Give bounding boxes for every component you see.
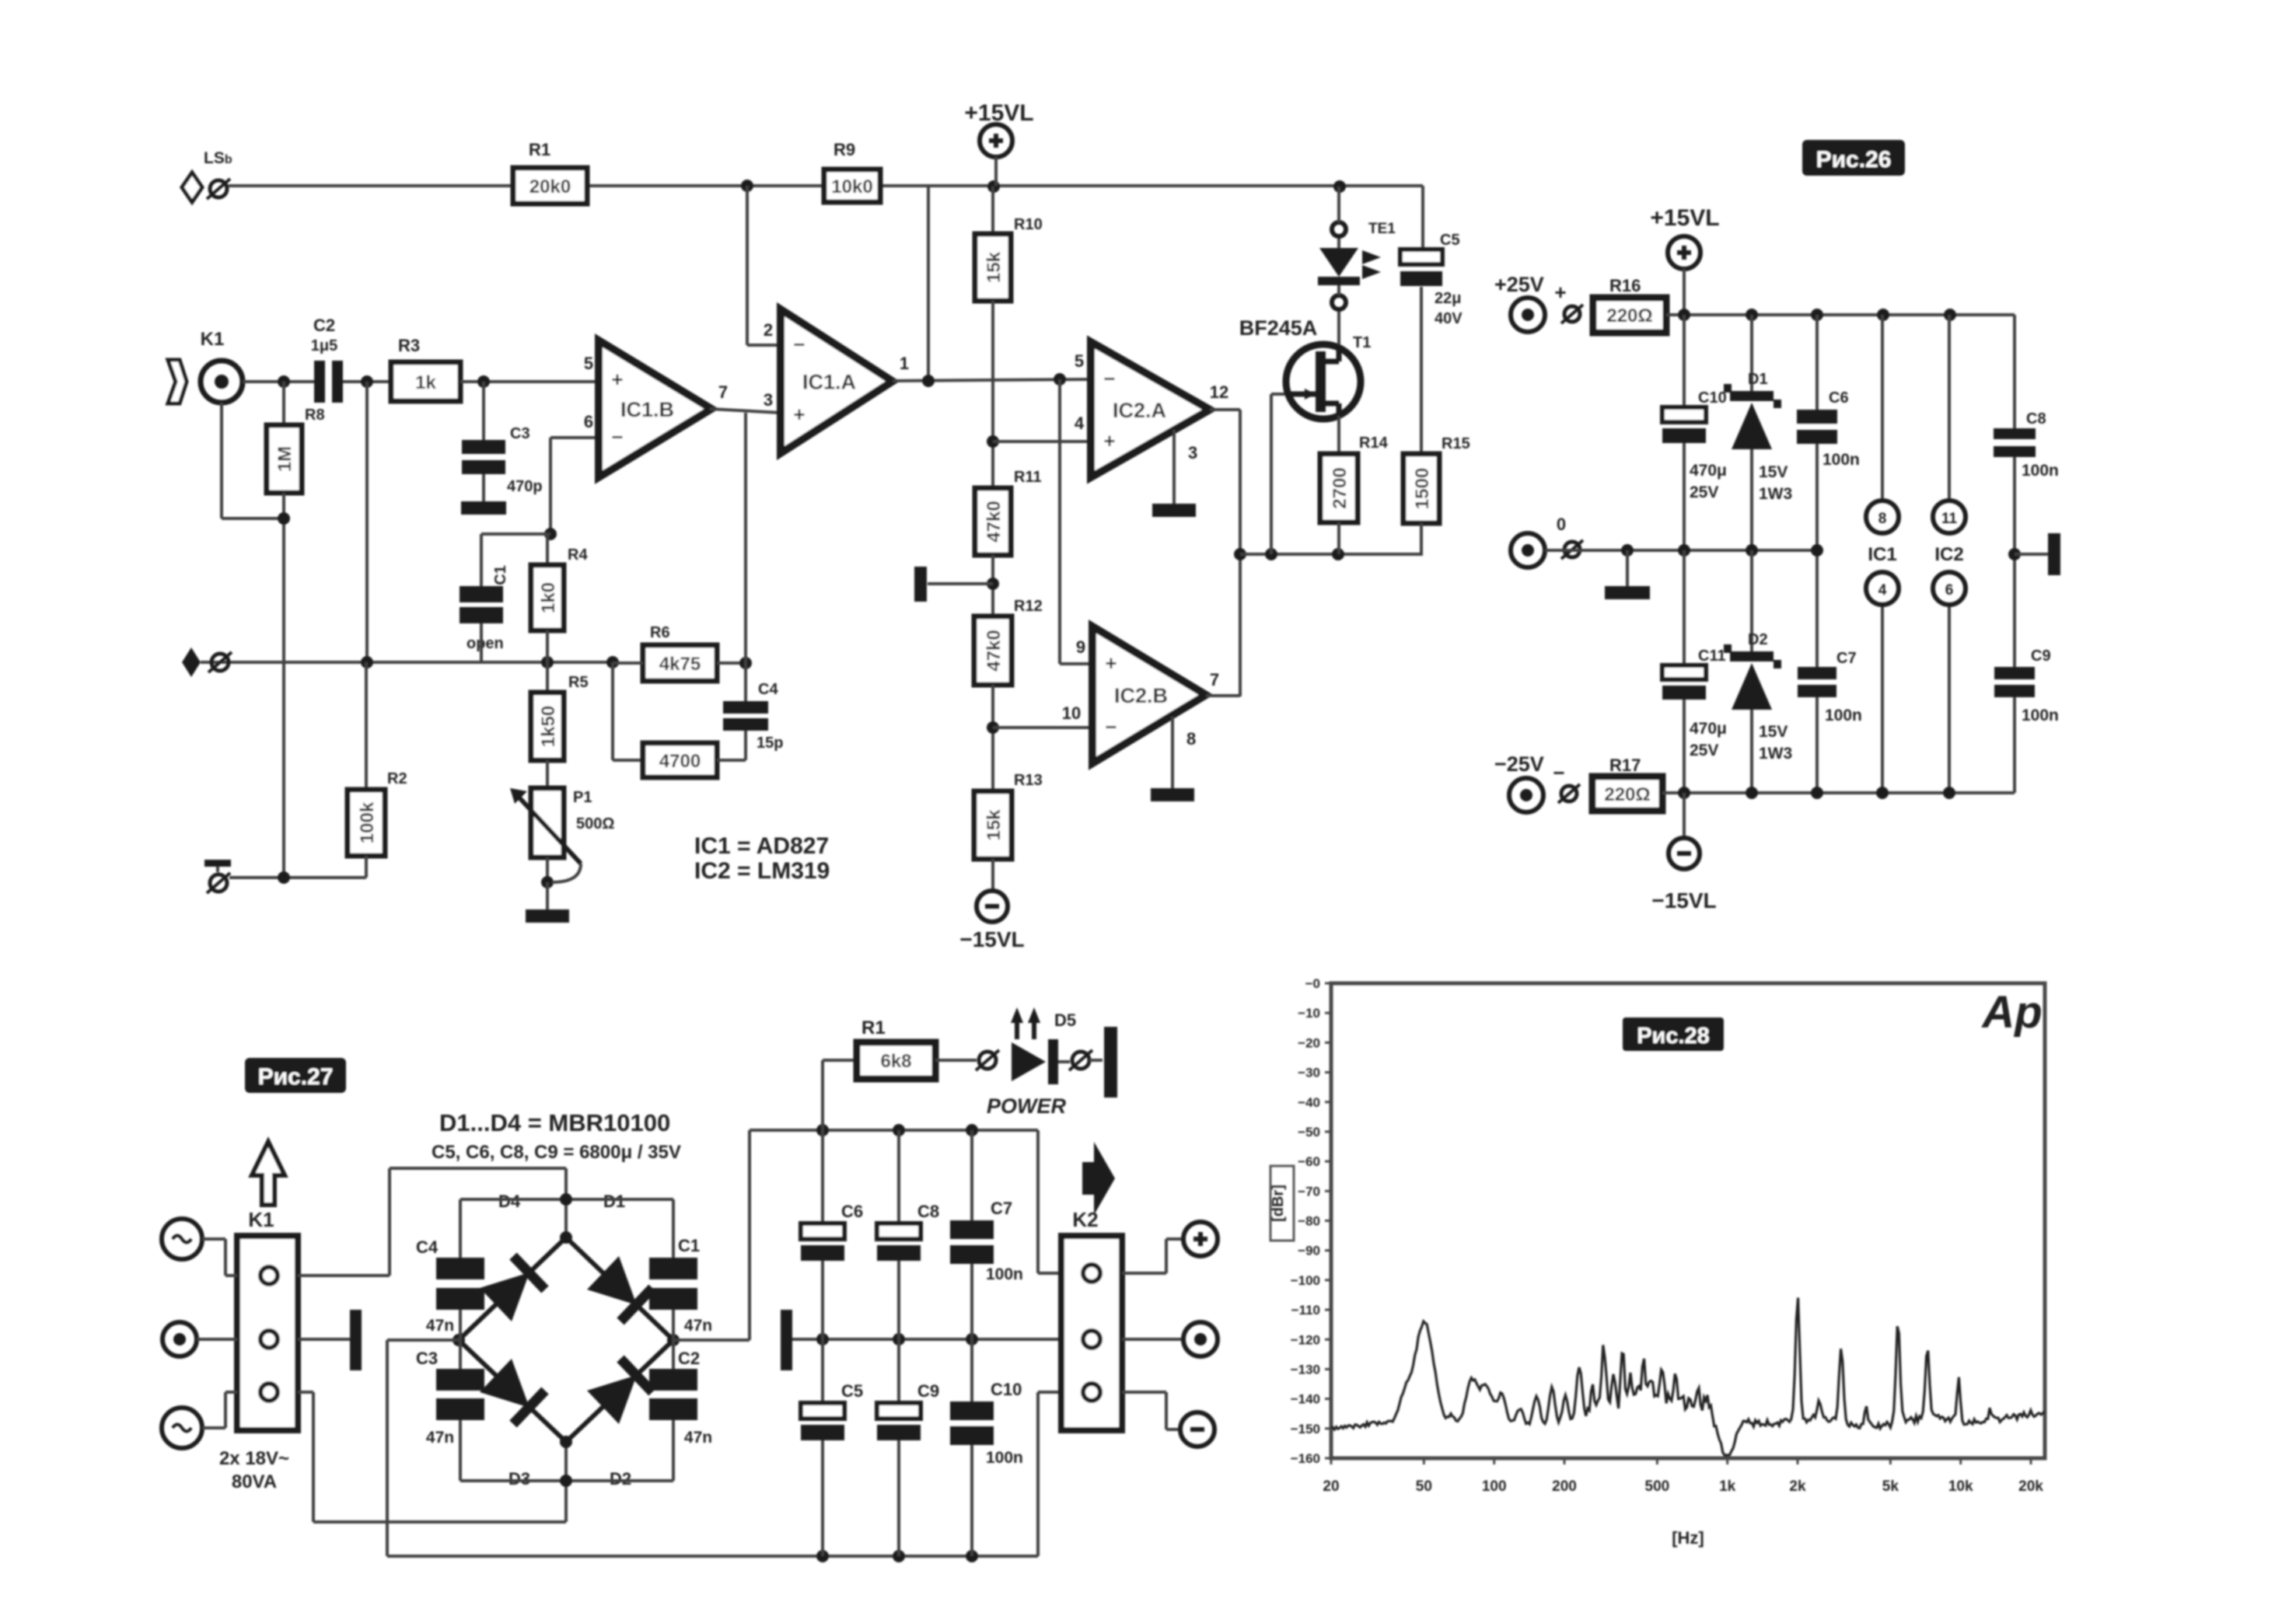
svg-text:R12: R12	[1014, 598, 1043, 615]
svg-text:2x 18V~: 2x 18V~	[219, 1448, 289, 1469]
svg-text:6k8: 6k8	[880, 1051, 911, 1072]
svg-text:−: −	[793, 333, 805, 356]
svg-text:D3: D3	[508, 1469, 530, 1489]
svg-text:R8: R8	[305, 407, 325, 424]
svg-text:K1: K1	[248, 1208, 274, 1231]
svg-text:R11: R11	[1014, 469, 1042, 486]
svg-text:2: 2	[764, 320, 773, 340]
svg-text:1μ5: 1μ5	[311, 337, 337, 354]
svg-text:20k0: 20k0	[529, 176, 571, 197]
svg-text:100n: 100n	[2022, 707, 2059, 724]
svg-text:Рис.27: Рис.27	[258, 1064, 334, 1090]
svg-text:5k: 5k	[1882, 1478, 1899, 1495]
svg-text:500: 500	[1645, 1478, 1670, 1495]
svg-text:C5, C6, C8, C9 = 6800μ / 35V: C5, C6, C8, C9 = 6800μ / 35V	[432, 1142, 681, 1163]
svg-text:−40: −40	[1298, 1095, 1320, 1110]
svg-text:POWER: POWER	[987, 1094, 1067, 1118]
svg-text:1k: 1k	[415, 372, 436, 393]
svg-text:12: 12	[1210, 382, 1228, 402]
svg-text:47k0: 47k0	[984, 501, 1005, 542]
svg-text:BF245A: BF245A	[1239, 316, 1318, 340]
svg-text:40V: 40V	[1435, 310, 1463, 327]
svg-text:+25V: +25V	[1494, 273, 1544, 296]
svg-text:10k0: 10k0	[831, 176, 872, 197]
svg-text:100n: 100n	[2022, 462, 2059, 480]
svg-text:C5: C5	[1440, 232, 1460, 249]
svg-text:T1: T1	[1353, 334, 1371, 351]
svg-text:D5: D5	[1054, 1010, 1076, 1030]
svg-text:−60: −60	[1298, 1154, 1320, 1169]
svg-text:1k0: 1k0	[538, 582, 559, 613]
svg-text:D1: D1	[603, 1192, 625, 1211]
svg-text:D2: D2	[610, 1469, 631, 1489]
svg-text:47n: 47n	[684, 1317, 712, 1335]
svg-text:−10: −10	[1298, 1006, 1320, 1021]
svg-text:−: −	[1103, 367, 1115, 390]
svg-text:−160: −160	[1291, 1451, 1320, 1466]
svg-text:R3: R3	[398, 336, 420, 355]
svg-text:R14: R14	[1359, 435, 1389, 452]
svg-text:1k: 1k	[1719, 1478, 1736, 1495]
svg-text:2700: 2700	[1330, 467, 1351, 508]
svg-text:220Ω: 220Ω	[1604, 784, 1650, 805]
svg-text:R13: R13	[1014, 772, 1043, 789]
svg-text:−20: −20	[1298, 1035, 1320, 1050]
svg-text:IC1: IC1	[1868, 544, 1896, 565]
svg-text:−25V: −25V	[1494, 752, 1544, 776]
svg-text:C4: C4	[758, 681, 778, 698]
svg-text:10: 10	[1062, 703, 1081, 723]
svg-text:Ap: Ap	[1980, 987, 2042, 1038]
svg-text:−50: −50	[1298, 1125, 1320, 1140]
svg-text:C6: C6	[841, 1202, 863, 1221]
svg-text:R15: R15	[1442, 435, 1470, 452]
svg-text:8: 8	[1878, 511, 1887, 527]
svg-text:C4: C4	[416, 1237, 439, 1257]
svg-text:100n: 100n	[986, 1265, 1023, 1283]
svg-text:C8: C8	[2026, 410, 2046, 428]
svg-text:IC1 = AD827: IC1 = AD827	[694, 833, 829, 859]
svg-text:C7: C7	[1836, 650, 1857, 667]
svg-text:100: 100	[1482, 1478, 1507, 1495]
svg-text:100n: 100n	[986, 1449, 1023, 1467]
svg-text:47n: 47n	[426, 1429, 454, 1447]
svg-text:C2: C2	[678, 1349, 700, 1368]
svg-text:C10: C10	[991, 1380, 1022, 1399]
svg-text:4: 4	[1878, 582, 1887, 599]
svg-text:−: −	[611, 425, 623, 449]
svg-text:IC1.B: IC1.B	[620, 398, 674, 421]
svg-text:C9: C9	[917, 1381, 939, 1401]
svg-text:R1: R1	[861, 1017, 886, 1038]
svg-text:4: 4	[1075, 414, 1085, 433]
svg-text:R16: R16	[1609, 276, 1641, 295]
svg-text:6: 6	[584, 412, 593, 431]
svg-text:1: 1	[900, 354, 909, 373]
svg-text:10k: 10k	[1948, 1478, 1973, 1495]
svg-text:IC1.A: IC1.A	[802, 371, 856, 394]
svg-text:−130: −130	[1291, 1362, 1320, 1377]
svg-text:9: 9	[1076, 637, 1085, 657]
svg-text:−90: −90	[1298, 1244, 1320, 1258]
svg-text:2k: 2k	[1789, 1478, 1806, 1495]
svg-text:[dBr]: [dBr]	[1270, 1185, 1287, 1222]
svg-text:C1: C1	[678, 1236, 700, 1255]
svg-text:470μ: 470μ	[1690, 462, 1727, 480]
svg-text:+: +	[611, 368, 623, 391]
svg-text:R2: R2	[387, 770, 407, 787]
svg-text:−0: −0	[1305, 976, 1320, 991]
svg-text:1M: 1M	[274, 446, 295, 472]
svg-text:0: 0	[1557, 515, 1566, 534]
svg-text:open: open	[467, 635, 504, 652]
svg-text:+: +	[1103, 429, 1115, 452]
svg-text:47k0: 47k0	[984, 630, 1005, 671]
svg-text:C1: C1	[492, 565, 509, 585]
svg-text:C5: C5	[841, 1381, 863, 1401]
svg-text:4k75: 4k75	[659, 654, 701, 675]
svg-text:−80: −80	[1298, 1214, 1320, 1229]
svg-text:R9: R9	[833, 140, 855, 159]
svg-text:−70: −70	[1298, 1184, 1320, 1199]
svg-text:15k: 15k	[984, 809, 1005, 841]
svg-text:−30: −30	[1298, 1066, 1320, 1080]
svg-text:−: −	[1553, 761, 1564, 784]
svg-text:+: +	[1105, 651, 1117, 675]
svg-text:R4: R4	[568, 546, 588, 564]
svg-text:47n: 47n	[426, 1317, 454, 1335]
svg-text:15V: 15V	[1759, 723, 1788, 741]
svg-text:−: −	[1105, 715, 1117, 738]
svg-text:3: 3	[1188, 443, 1197, 462]
svg-text:5: 5	[1075, 351, 1084, 371]
svg-text:−15VL: −15VL	[1651, 888, 1716, 913]
svg-text:IC2.B: IC2.B	[1114, 684, 1168, 707]
svg-text:D4: D4	[498, 1192, 521, 1211]
svg-text:470p: 470p	[507, 478, 543, 495]
svg-text:C9: C9	[2031, 647, 2051, 665]
svg-text:+: +	[1554, 281, 1566, 304]
svg-text:6: 6	[1945, 582, 1954, 599]
svg-text:1W3: 1W3	[1759, 745, 1792, 763]
svg-text:22μ: 22μ	[1435, 290, 1461, 307]
svg-text:C10: C10	[1698, 389, 1727, 407]
svg-text:1k50: 1k50	[538, 706, 559, 747]
svg-text:Рис.26: Рис.26	[1816, 147, 1892, 173]
svg-text:K1: K1	[201, 329, 225, 350]
svg-text:47n: 47n	[684, 1429, 712, 1447]
svg-text:C6: C6	[1829, 389, 1849, 407]
svg-text:−140: −140	[1291, 1392, 1320, 1407]
svg-text:5: 5	[584, 354, 593, 373]
svg-text:TE1: TE1	[1368, 221, 1396, 237]
svg-text:15p: 15p	[757, 735, 783, 752]
svg-text:D2: D2	[1748, 631, 1768, 648]
svg-text:100n: 100n	[1822, 451, 1860, 469]
svg-text:8: 8	[1186, 729, 1196, 749]
svg-text:−110: −110	[1291, 1303, 1320, 1318]
svg-text:C3: C3	[416, 1349, 438, 1368]
svg-text:1W3: 1W3	[1759, 485, 1792, 503]
svg-text:7: 7	[1210, 670, 1219, 689]
svg-text:Рис.28: Рис.28	[1637, 1024, 1710, 1049]
svg-text:1500: 1500	[1412, 468, 1433, 509]
svg-text:R5: R5	[568, 674, 589, 691]
svg-text:+15VL: +15VL	[1650, 205, 1719, 231]
svg-text:100n: 100n	[1825, 707, 1862, 724]
svg-text:C2: C2	[313, 316, 335, 335]
svg-text:C3: C3	[510, 425, 530, 442]
svg-text:−100: −100	[1291, 1273, 1320, 1288]
svg-text:11: 11	[1941, 511, 1958, 527]
svg-text:C7: C7	[991, 1199, 1012, 1218]
svg-text:500Ω: 500Ω	[576, 815, 614, 832]
svg-text:50: 50	[1416, 1478, 1432, 1495]
svg-text:−120: −120	[1291, 1332, 1320, 1347]
svg-text:+15VL: +15VL	[964, 100, 1033, 126]
svg-text:C8: C8	[917, 1202, 939, 1221]
svg-text:D1...D4 = MBR10100: D1...D4 = MBR10100	[439, 1109, 670, 1136]
svg-text:80VA: 80VA	[232, 1471, 277, 1492]
svg-text:IC2 = LM319: IC2 = LM319	[694, 858, 830, 884]
svg-text:R1: R1	[529, 140, 550, 159]
svg-text:200: 200	[1552, 1478, 1577, 1495]
svg-text:15V: 15V	[1759, 463, 1788, 481]
svg-text:25V: 25V	[1690, 742, 1718, 759]
svg-text:R10: R10	[1014, 216, 1043, 233]
svg-text:D1: D1	[1748, 371, 1768, 388]
svg-text:20k: 20k	[2018, 1478, 2043, 1495]
svg-text:15k: 15k	[984, 251, 1005, 283]
svg-text:R6: R6	[650, 624, 670, 641]
svg-text:3: 3	[764, 390, 773, 410]
svg-text:100k: 100k	[357, 801, 378, 843]
svg-text:IC2.A: IC2.A	[1113, 399, 1166, 422]
svg-text:IC2: IC2	[1934, 544, 1963, 565]
svg-text:4700: 4700	[659, 751, 701, 772]
svg-text:20: 20	[1323, 1478, 1339, 1495]
svg-text:−150: −150	[1291, 1422, 1320, 1436]
svg-text:7: 7	[718, 382, 728, 402]
svg-text:P1: P1	[573, 789, 592, 806]
svg-text:470μ: 470μ	[1690, 720, 1727, 738]
svg-text:220Ω: 220Ω	[1606, 305, 1652, 326]
svg-text:R17: R17	[1609, 756, 1641, 775]
svg-text:C11: C11	[1698, 647, 1726, 665]
svg-text:+: +	[793, 403, 805, 426]
svg-text:25V: 25V	[1690, 483, 1718, 501]
svg-text:−15VL: −15VL	[959, 927, 1024, 951]
svg-text:[Hz]: [Hz]	[1672, 1528, 1704, 1548]
